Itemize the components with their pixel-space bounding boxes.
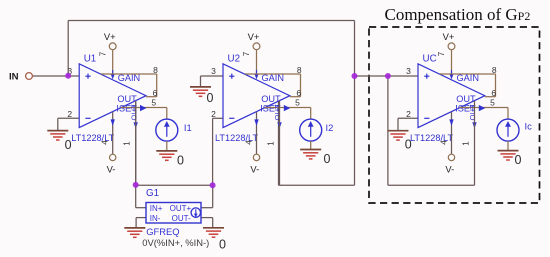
svg-text:1: 1 xyxy=(462,141,471,146)
svg-text:0: 0 xyxy=(405,138,412,152)
svg-text:0: 0 xyxy=(177,153,184,167)
svg-text:IN-: IN- xyxy=(150,214,161,223)
svg-text:GAIN: GAIN xyxy=(457,73,479,83)
svg-text:I2: I2 xyxy=(326,122,334,133)
svg-text:2: 2 xyxy=(406,109,411,119)
svg-text:GAIN: GAIN xyxy=(262,73,284,83)
svg-text:OUT: OUT xyxy=(456,94,476,104)
svg-text:GFREQ: GFREQ xyxy=(146,226,179,237)
svg-text:GAIN: GAIN xyxy=(118,73,140,83)
svg-text:U2: U2 xyxy=(228,54,241,65)
svg-text:Compensation of GP2: Compensation of GP2 xyxy=(385,5,531,24)
svg-text:3: 3 xyxy=(406,66,411,76)
svg-text:V+: V+ xyxy=(104,31,116,42)
svg-text:Ic: Ic xyxy=(525,121,533,132)
svg-text:UC: UC xyxy=(423,54,437,65)
svg-text:5: 5 xyxy=(490,97,495,107)
svg-text:1: 1 xyxy=(267,141,276,146)
svg-text:8: 8 xyxy=(153,65,158,75)
svg-text:V+: V+ xyxy=(443,31,455,42)
svg-text:OUT: OUT xyxy=(468,104,477,120)
svg-text:7: 7 xyxy=(242,51,251,56)
svg-text:U1: U1 xyxy=(84,54,97,65)
svg-text:IN+: IN+ xyxy=(150,204,163,213)
svg-text:6: 6 xyxy=(153,88,158,98)
svg-text:IN: IN xyxy=(9,72,19,83)
svg-text:OUT-: OUT- xyxy=(172,214,191,223)
svg-text:5: 5 xyxy=(295,97,300,107)
svg-text:0V(%IN+, %IN-): 0V(%IN+, %IN-) xyxy=(142,237,209,248)
svg-text:V-: V- xyxy=(445,164,454,175)
svg-text:OUT+: OUT+ xyxy=(170,204,192,213)
svg-text:V-: V- xyxy=(250,164,259,175)
svg-text:1: 1 xyxy=(123,141,132,146)
svg-text:5: 5 xyxy=(151,97,156,107)
svg-text:0: 0 xyxy=(324,152,331,166)
svg-text:4: 4 xyxy=(440,140,449,145)
svg-text:0: 0 xyxy=(65,138,72,152)
svg-text:4: 4 xyxy=(245,140,254,145)
svg-text:4: 4 xyxy=(101,140,110,145)
svg-text:6: 6 xyxy=(491,88,496,98)
svg-text:0: 0 xyxy=(207,91,214,105)
svg-text:2: 2 xyxy=(211,109,216,119)
svg-text:OUT: OUT xyxy=(129,104,138,120)
svg-text:OUT: OUT xyxy=(117,94,137,104)
svg-text:0: 0 xyxy=(515,153,522,167)
svg-text:OUT: OUT xyxy=(273,104,282,120)
svg-text:OUT: OUT xyxy=(261,94,281,104)
svg-text:0: 0 xyxy=(219,238,226,252)
svg-text:7: 7 xyxy=(437,51,446,56)
svg-text:V-: V- xyxy=(107,164,116,175)
svg-text:V+: V+ xyxy=(248,31,260,42)
svg-text:8: 8 xyxy=(492,65,497,75)
svg-text:I1: I1 xyxy=(184,122,192,133)
svg-text:6: 6 xyxy=(296,88,301,98)
svg-text:3: 3 xyxy=(211,66,216,76)
svg-text:8: 8 xyxy=(297,65,302,75)
svg-text:G1: G1 xyxy=(146,188,159,199)
svg-text:7: 7 xyxy=(98,51,107,56)
svg-text:2: 2 xyxy=(67,109,72,119)
